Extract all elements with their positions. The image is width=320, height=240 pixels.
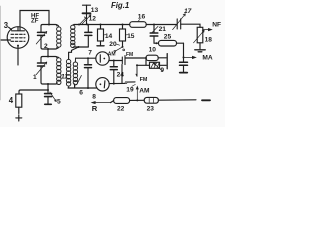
wire into R22 bbox=[111, 101, 114, 103]
terminal plate lower bbox=[166, 62, 168, 69]
wire oscillator top to tube V2 bbox=[76, 57, 96, 59]
trimmer arrow 12 bbox=[82, 15, 91, 24]
wire rail down to MA node bbox=[183, 43, 185, 62]
trimmer C13 stem bbox=[86, 5, 88, 12]
capacitor C21 stub bbox=[153, 25, 155, 34]
svg-text:25: 25 bbox=[164, 33, 172, 40]
leader for label 3 bbox=[9, 27, 12, 29]
arrow 9 bbox=[154, 63, 163, 71]
continuation dash bbox=[202, 99, 210, 101]
capacitor C24 stub bottom bbox=[113, 70, 115, 84]
node tank2 bottom bbox=[47, 83, 49, 85]
leader 20 bbox=[117, 44, 120, 45]
node bus start bbox=[78, 24, 80, 26]
FM coil 9 body bbox=[150, 62, 160, 68]
tube V1 anode bar bbox=[12, 27, 25, 31]
wire R15 top bbox=[122, 25, 124, 30]
tube V2 (7) envelope bbox=[96, 52, 109, 65]
svg-text:MA: MA bbox=[202, 55, 212, 62]
svg-text:17: 17 bbox=[184, 8, 192, 15]
node bus cap21 bbox=[153, 24, 155, 26]
svg-text:11: 11 bbox=[61, 74, 68, 81]
capacitor decoupling plates bbox=[180, 62, 188, 65]
wire anode to HF line bbox=[20, 11, 49, 31]
capacitor C1 plates bbox=[38, 63, 45, 66]
tube V1 cathode dot bbox=[17, 45, 19, 47]
node MA bbox=[183, 56, 185, 58]
node rail bbox=[156, 42, 158, 44]
capacitor C2 arrow bbox=[36, 31, 47, 44]
resistor R22 bbox=[114, 98, 130, 104]
capacitor C5 plates bbox=[45, 94, 52, 97]
wire C17 to pot bbox=[181, 24, 200, 27]
terminal plate upper bbox=[166, 54, 168, 62]
capacitor C21 plates bbox=[150, 33, 158, 36]
resistor R23 bbox=[144, 97, 158, 103]
trimmer C13 top bar bbox=[83, 4, 91, 6]
switch on coil top bbox=[79, 17, 87, 25]
svg-text:10: 10 bbox=[149, 47, 157, 54]
capacitor C1 branch top bbox=[40, 58, 42, 63]
node tank2 top bbox=[47, 56, 49, 58]
wire cap to rail bbox=[125, 57, 146, 59]
R23 inner marks bbox=[149, 98, 153, 102]
ground below C5 bbox=[45, 103, 51, 105]
resistor R4 bbox=[16, 94, 22, 107]
capacitor osc stub bottom bbox=[87, 68, 89, 88]
capacitor C5 arrow bbox=[50, 92, 57, 102]
capacitor C24 plates bbox=[110, 67, 117, 70]
svg-text:FM: FM bbox=[140, 77, 148, 83]
tank1 bottom rail bbox=[41, 48, 57, 50]
contact AM bbox=[114, 50, 116, 52]
svg-text:18: 18 bbox=[205, 37, 213, 44]
wire link tank1-tank2 bbox=[47, 49, 49, 57]
wire C5 to ground bbox=[47, 97, 49, 104]
tube V2 top cap bar bbox=[97, 45, 104, 47]
resistor R16 bbox=[130, 22, 147, 28]
svg-text:7: 7 bbox=[88, 49, 92, 56]
svg-text:1: 1 bbox=[33, 74, 37, 81]
svg-text:R: R bbox=[92, 104, 98, 113]
tube V3 (8) envelope bbox=[96, 78, 109, 91]
resistor R15 bbox=[120, 29, 126, 41]
svg-text:12: 12 bbox=[89, 15, 97, 22]
wire R4 to plus bbox=[18, 107, 20, 113]
node AM branch bbox=[136, 99, 138, 101]
wire cap branch up bbox=[87, 35, 89, 47]
wire FM coil branch bbox=[137, 58, 166, 65]
tank2 top rail bbox=[41, 57, 57, 59]
ground below pot bbox=[195, 50, 205, 52]
node R15 bus bbox=[122, 24, 124, 26]
node switch 20 bbox=[122, 46, 124, 48]
node tank1 bottom bbox=[47, 48, 49, 50]
svg-text:3: 3 bbox=[4, 21, 9, 30]
svg-text:NF: NF bbox=[212, 22, 221, 29]
resistor R10 bbox=[146, 55, 158, 60]
coupling capacitor plates bbox=[122, 56, 125, 65]
R return arrow bbox=[92, 102, 111, 104]
capacitor C2 plates bbox=[38, 32, 45, 35]
svg-text:5: 5 bbox=[57, 98, 61, 105]
node osc rail bbox=[87, 87, 89, 89]
leader 16 bbox=[138, 19, 140, 21]
oscillator bottom rail bbox=[68, 84, 96, 88]
node osc cap bbox=[87, 57, 89, 59]
capacitor C1 branch bottom bbox=[40, 66, 42, 83]
capacitor C17 arrow bbox=[173, 14, 186, 30]
wire pot to ground bbox=[199, 43, 201, 50]
capacitor osc plates bbox=[85, 65, 92, 68]
rail coil bottom bbox=[74, 46, 89, 48]
plus terminal bbox=[16, 115, 22, 121]
wire zigzag to oscillator coil bbox=[69, 47, 79, 59]
node FM coil branch bbox=[145, 57, 147, 59]
node V2 output bbox=[113, 60, 115, 62]
label 14 bbox=[104, 34, 106, 36]
svg-text:19: 19 bbox=[126, 87, 134, 94]
svg-text:23: 23 bbox=[147, 105, 155, 112]
node at HF line / tank top bbox=[48, 24, 50, 26]
node FM stub bbox=[136, 64, 138, 66]
node rail bbox=[78, 46, 80, 48]
label 15 bbox=[126, 34, 128, 36]
switch 21 arm bbox=[152, 26, 158, 32]
contact lower switch bbox=[125, 82, 127, 84]
left scan edge artifact bbox=[0, 6, 2, 100]
resistor R25 bbox=[159, 40, 177, 46]
svg-text:14: 14 bbox=[105, 33, 113, 40]
wire cathode down bbox=[17, 47, 19, 65]
tank2 bottom rail bbox=[41, 83, 57, 85]
MA arrow bbox=[185, 56, 196, 58]
switch 6 arm bbox=[77, 75, 82, 84]
wire R14 top bbox=[100, 25, 102, 30]
resistor R14 bbox=[98, 29, 104, 41]
tube V2 cathode line bbox=[99, 55, 101, 62]
NF arrow bbox=[203, 29, 212, 31]
coil L3 (IF primary right winding) bbox=[71, 25, 75, 48]
FM coil 9 hatching bbox=[151, 63, 159, 68]
wire tank2 to supply rail bbox=[47, 84, 49, 94]
svg-text:ZF: ZF bbox=[31, 18, 39, 25]
wire FM stub down bbox=[136, 65, 137, 76]
capacitor IF tuning stub top bbox=[87, 25, 89, 33]
wire V3 output bbox=[109, 82, 135, 84]
coil L2 (tank2 winding) bbox=[57, 57, 61, 85]
wire FM branch down bbox=[121, 65, 123, 83]
svg-text:Fig.1: Fig.1 bbox=[111, 1, 129, 10]
svg-text:4: 4 bbox=[9, 96, 14, 105]
capacitor C1 arrow bbox=[36, 62, 47, 75]
wire R22 to R23 bbox=[130, 99, 145, 101]
tube V1 (3) envelope bbox=[7, 27, 29, 49]
switch 20 lead bbox=[122, 41, 124, 47]
svg-text:24: 24 bbox=[117, 72, 125, 79]
node R14 bus bbox=[100, 24, 102, 26]
contact FM bbox=[123, 49, 125, 51]
coil L4 (oscillator winding A) bbox=[66, 59, 70, 88]
svg-text:20: 20 bbox=[109, 41, 117, 48]
capacitor C2 branch bottom bbox=[40, 35, 42, 47]
wire cap to ground bbox=[183, 65, 185, 72]
svg-text:6: 6 bbox=[79, 90, 83, 97]
main bus wire bbox=[74, 24, 177, 26]
svg-text:16: 16 bbox=[138, 14, 146, 21]
tank1 top rail bbox=[41, 25, 57, 27]
tube V2 anode dot bbox=[103, 58, 105, 60]
coil L1 (tank1 winding) bbox=[57, 25, 61, 49]
supply rail to R4 bbox=[19, 90, 48, 94]
svg-text:FM: FM bbox=[126, 52, 133, 58]
AM detector rail bbox=[154, 42, 184, 44]
coil L5 (oscillator winding B) bbox=[73, 58, 77, 88]
svg-text:8: 8 bbox=[92, 94, 96, 101]
capacitor C17 plates bbox=[177, 19, 181, 29]
node bus/trimmer bbox=[86, 24, 88, 26]
svg-text:21: 21 bbox=[159, 26, 167, 33]
svg-text:13: 13 bbox=[91, 7, 99, 14]
capacitor IF tuning plates bbox=[85, 32, 92, 35]
switch 20 arm bbox=[116, 47, 123, 51]
wire AM branch with arrow bbox=[136, 87, 138, 101]
ground symbol bbox=[180, 72, 187, 74]
wire R14 to tube top cap bbox=[100, 41, 102, 45]
trimmer C13 bottom plate bbox=[83, 12, 91, 14]
leader 19 bbox=[132, 84, 136, 86]
wire V2 output bbox=[109, 60, 122, 62]
FM rail right bbox=[158, 57, 166, 59]
tube V3 cathode line bbox=[103, 81, 106, 88]
node V3 output bbox=[113, 83, 115, 85]
capacitor osc stub bbox=[87, 58, 89, 65]
potentiometer arrow bbox=[194, 30, 205, 43]
wire grid input bbox=[1, 39, 11, 41]
potentiometer R18 bbox=[197, 27, 203, 43]
tube V1 grid dashes bbox=[11, 34, 25, 41]
capacitor C21 stub bottom bbox=[153, 36, 155, 43]
node rail/cap5 bbox=[47, 89, 49, 91]
capacitor C2 branch top bbox=[40, 26, 42, 32]
svg-text:AM: AM bbox=[108, 52, 116, 58]
trimmer lead to bus bbox=[86, 14, 88, 24]
svg-text:AM: AM bbox=[139, 88, 150, 95]
svg-text:22: 22 bbox=[117, 105, 125, 112]
tube V3 anode dot bbox=[100, 83, 102, 85]
bottom rail right bbox=[158, 99, 196, 101]
svg-text:15: 15 bbox=[127, 33, 135, 40]
svg-text:9: 9 bbox=[160, 67, 164, 74]
capacitor C24 stub bbox=[113, 61, 115, 67]
